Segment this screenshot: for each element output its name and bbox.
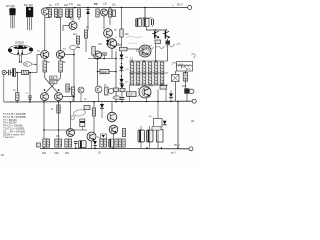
wire base link — [44, 129, 87, 131]
wire drops to ground rail — [16, 73, 18, 93]
resistor block row2 — [130, 74, 134, 85]
diode D12 — [106, 38, 110, 46]
resistor R6 — [77, 9, 80, 17]
svg-text:4k7: 4k7 — [73, 33, 78, 36]
resistor R9 small bracket — [120, 29, 129, 37]
svg-text:1N: 1N — [98, 153, 101, 155]
resistor R15 — [59, 61, 63, 72]
resistor R1 — [48, 9, 51, 17]
resistor R17 — [92, 47, 95, 56]
svg-text:BC 546: BC 546 — [6, 4, 15, 8]
capacitor C1 electrolytic — [136, 19, 142, 27]
svg-text:50 V: 50 V — [177, 3, 183, 7]
capacitor C12 electrolytic — [147, 126, 154, 148]
resistor R14 — [43, 61, 47, 72]
transistor package TO-126 — [26, 7, 33, 31]
svg-text:0C9: 0C9 — [128, 93, 133, 97]
svg-text:+: + — [172, 3, 174, 7]
capacitor C10 — [74, 142, 78, 149]
transistor T19a — [67, 129, 75, 137]
diode D9 — [184, 71, 194, 101]
pencil scribble above big transistor — [126, 36, 142, 44]
resistor pair A — [43, 139, 46, 147]
tail wire — [73, 50, 75, 102]
capacitor C7 — [102, 53, 108, 59]
transistor T9 driver — [107, 37, 119, 50]
diode D7 — [120, 83, 124, 91]
transistor T6 — [94, 51, 102, 59]
left end component — [37, 143, 41, 147]
diode D9 — [169, 91, 173, 102]
small label box — [152, 127, 161, 131]
pencil circle annotation — [73, 109, 86, 117]
resistor R13 — [16, 93, 19, 101]
wire bottom rail — [40, 147, 189, 149]
transistor package TO-92 — [9, 8, 16, 29]
label boxes — [50, 76, 58, 84]
transistor T17 — [107, 112, 117, 122]
wire mid horizontal — [88, 58, 116, 60]
resistor trio E — [115, 139, 118, 147]
transistor package TO-3 — [8, 45, 33, 63]
svg-text:0R1: 0R1 — [42, 153, 47, 155]
svg-text:BD 139: BD 139 — [24, 3, 33, 7]
resistor R2 — [54, 9, 57, 17]
wire top bus — [46, 7, 188, 9]
transistor T7 — [69, 22, 77, 30]
svg-text:1k5: 1k5 — [64, 4, 69, 7]
resistor R15b — [66, 84, 69, 92]
svg-text:0R1: 0R1 — [65, 153, 70, 155]
resistor R12 — [22, 70, 29, 74]
transistor T4 — [41, 93, 49, 101]
capacitor C11 electrolytic — [138, 126, 145, 148]
diode chain D4 D5 D6 — [120, 53, 124, 61]
pencil Source handwriting — [136, 44, 195, 71]
diode D10 — [93, 141, 97, 148]
wire VAS vertical — [115, 51, 117, 102]
label box IC — [127, 92, 137, 97]
svg-text:0C0: 0C0 — [50, 82, 55, 84]
resistor R10 — [155, 40, 161, 44]
cross coupling wires — [44, 72, 46, 78]
svg-text:470: 470 — [69, 3, 74, 6]
resistor pair B — [55, 139, 58, 147]
transistor T8 — [104, 29, 113, 38]
transistor T1 — [41, 8, 48, 15]
fuse box — [172, 75, 180, 82]
capacitor C3 — [152, 18, 154, 27]
box component — [157, 126, 164, 142]
svg-text:470: 470 — [55, 4, 60, 7]
svg-text:4Ω7: 4Ω7 — [182, 85, 187, 88]
callout small — [70, 46, 80, 50]
svg-text:100: 100 — [125, 33, 130, 36]
resistor R16 — [76, 36, 79, 44]
terminal input — [2, 70, 6, 74]
transistor T14 — [78, 87, 84, 93]
callout OCO2 — [113, 96, 121, 100]
svg-text:0R1: 0R1 — [55, 153, 60, 155]
svg-text:0Ω22: 0Ω22 — [101, 71, 107, 74]
box with diode lower — [149, 102, 167, 149]
terminal +supply — [188, 6, 192, 10]
capacitor C9 electrolytic vertical — [79, 141, 87, 148]
diode D8 — [100, 103, 104, 111]
resistor R3 — [59, 9, 62, 17]
resistor R20 — [105, 87, 109, 95]
capacitor C5 electrolytic — [12, 69, 21, 77]
resistor R27 — [57, 105, 60, 113]
resistor R24 — [183, 73, 187, 82]
resistor R5 — [69, 9, 72, 17]
capacitor C4 — [9, 70, 13, 76]
vertical feeds — [43, 101, 45, 139]
capacitor C2 electrolytic — [143, 19, 149, 27]
svg-text:H4: H4 — [191, 119, 195, 123]
terminal output — [192, 99, 196, 103]
transistor T2 — [41, 50, 49, 58]
transistor T15b — [108, 88, 113, 93]
resistor R7c — [112, 10, 115, 17]
svg-text:2N3055: 2N3055 — [15, 41, 25, 45]
resistor R7b — [96, 9, 99, 17]
wire to T2 base — [36, 55, 38, 73]
resistor pair D — [100, 139, 103, 147]
resistor R19 — [71, 87, 74, 95]
wire down from output — [177, 101, 179, 148]
box with inductor L1 — [177, 62, 193, 72]
transistor T5 — [55, 93, 63, 101]
resistor R21b — [120, 88, 125, 91]
wire — [145, 27, 147, 31]
resistor R23 — [92, 108, 95, 116]
transistor T11 — [163, 31, 170, 39]
resistor R11 dark — [166, 39, 171, 45]
svg-text:−: − — [169, 144, 171, 148]
resistor R26 — [122, 129, 125, 137]
junction dots on bus — [74, 7, 76, 9]
resistor R21 — [114, 88, 119, 91]
transistor T8a — [101, 9, 108, 16]
box R22 — [84, 106, 90, 110]
small comp 27 — [160, 83, 167, 90]
resistor R4 — [65, 9, 68, 17]
wire — [109, 17, 111, 25]
resistor horizontal R18 — [120, 47, 140, 51]
terminal -supply — [189, 147, 193, 151]
svg-text:TMB: TMB — [116, 45, 121, 47]
resistor R7 — [108, 9, 111, 17]
capacitor C8 — [120, 98, 125, 102]
svg-text:* see text: * see text — [3, 135, 14, 139]
svg-text:0C0: 0C0 — [114, 98, 119, 100]
wire drops from resistor row — [49, 16, 51, 19]
transistor T18 — [109, 125, 118, 134]
transistor T12 power — [139, 45, 151, 57]
diode D1 — [86, 8, 90, 31]
transistor T19 — [87, 132, 96, 141]
capacitor C13 electrolytic — [109, 139, 114, 147]
svg-text:ab 1: ab 1 — [171, 152, 176, 155]
resistor R8 — [84, 30, 87, 38]
transistor T13 power — [138, 86, 154, 99]
svg-text:1N: 1N — [149, 116, 152, 118]
wire ground rail — [4, 100, 192, 103]
capacitor C6 — [28, 96, 31, 102]
transistor T15 — [95, 86, 102, 93]
callout OCO arrow — [23, 62, 36, 66]
resistor block row1 — [130, 62, 134, 73]
resistor R25 — [97, 69, 116, 74]
capacitor C9b electrolytic — [80, 119, 85, 130]
transistor T10 — [152, 31, 159, 39]
svg-text:50 V: 50 V — [174, 143, 180, 147]
transistor T3 — [56, 50, 64, 58]
box with diode F — [101, 134, 107, 139]
resistor pair C — [65, 139, 68, 147]
